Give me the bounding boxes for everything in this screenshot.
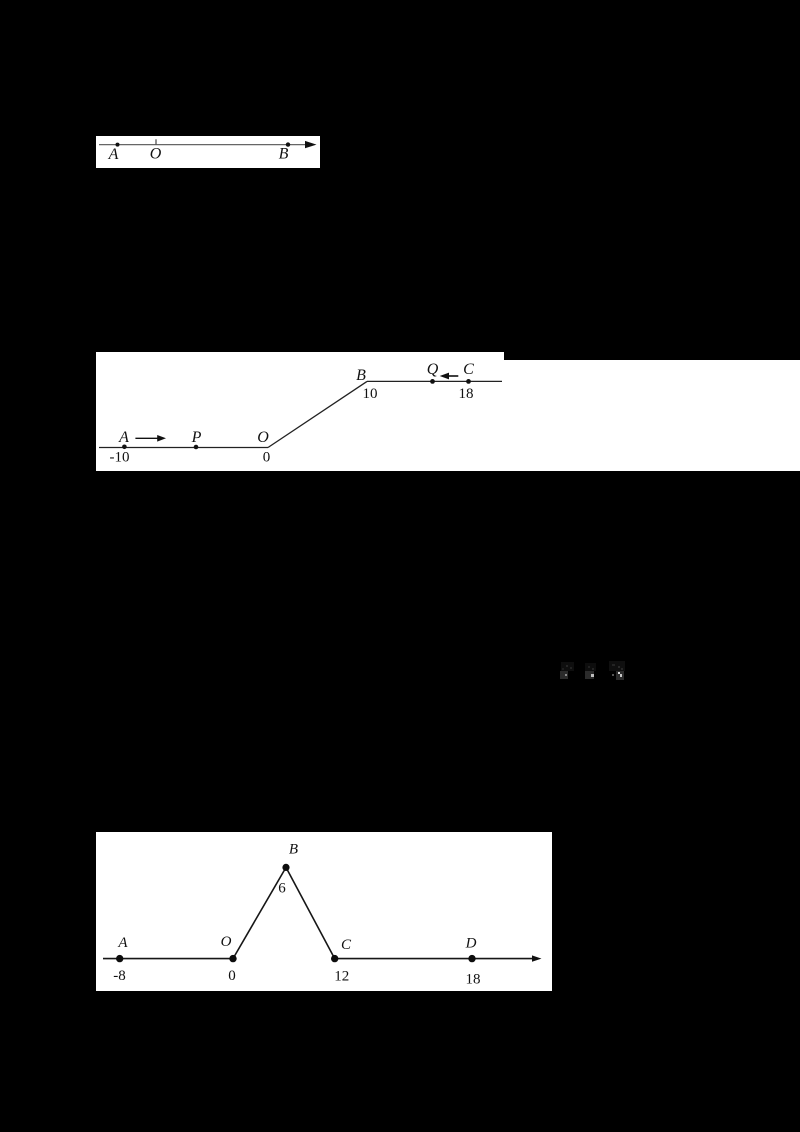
svg-text:10: 10 xyxy=(363,386,378,402)
svg-text:6: 6 xyxy=(278,881,286,897)
svg-text:12: 12 xyxy=(334,968,349,984)
svg-text:D: D xyxy=(465,936,477,952)
svg-text:Q: Q xyxy=(427,361,439,378)
svg-text:O: O xyxy=(150,146,162,163)
svg-text:18: 18 xyxy=(466,971,481,987)
svg-text:A: A xyxy=(108,146,119,163)
svg-text:C: C xyxy=(463,361,474,378)
svg-text:0: 0 xyxy=(228,968,236,984)
svg-text:B: B xyxy=(356,367,366,384)
svg-text:B: B xyxy=(279,146,289,163)
svg-text:O: O xyxy=(221,934,232,950)
svg-text:A: A xyxy=(117,935,128,951)
svg-text:P: P xyxy=(191,429,202,446)
svg-text:C: C xyxy=(341,937,352,953)
svg-text:18: 18 xyxy=(459,386,474,402)
svg-text:A: A xyxy=(118,429,129,446)
svg-text:-10: -10 xyxy=(110,450,130,466)
svg-text:B: B xyxy=(289,842,298,858)
svg-text:0: 0 xyxy=(263,450,271,466)
svg-text:-8: -8 xyxy=(113,968,126,984)
svg-text:O: O xyxy=(257,429,269,446)
